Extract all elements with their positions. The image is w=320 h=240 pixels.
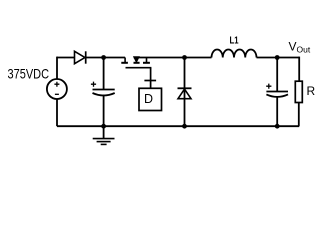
node: input cap bottom junction bbox=[101, 124, 106, 129]
diode D2 freewheeling (cathode up) bbox=[178, 88, 192, 98]
ground bbox=[93, 126, 115, 144]
svg-text:VOut: VOut bbox=[289, 40, 311, 55]
transistor Q1 MOSFET bbox=[121, 57, 151, 68]
inductor L1 bbox=[212, 50, 257, 58]
wire top rail left segment bbox=[57, 57, 75, 59]
svg-text:375VDC: 375VDC bbox=[8, 65, 50, 81]
node: switch node junction top of D2 bbox=[182, 55, 187, 60]
wire D2 cathode tap bbox=[184, 58, 186, 127]
wire output cap to bottom rail bbox=[276, 97, 278, 127]
driver block D bbox=[139, 88, 162, 110]
wire top rail from MOSFET to output corner bbox=[134, 57, 300, 59]
capacitor C1 input (polarized) bbox=[91, 82, 115, 96]
node: D2 bottom junction bbox=[182, 124, 187, 129]
diode D1 series (anode left, cathode right) bbox=[75, 51, 86, 63]
wire output cap tap bbox=[276, 58, 278, 92]
node: output cap bottom junction bbox=[275, 124, 280, 129]
wire input cap to bottom rail bbox=[103, 95, 105, 127]
wire right branch top bbox=[298, 57, 300, 82]
svg-text:D: D bbox=[144, 92, 153, 106]
wire top rail from D1 to MOSFET drain bbox=[86, 57, 125, 59]
wire resistor to bottom rail bbox=[298, 103, 300, 127]
wire input cap tap bbox=[103, 58, 105, 90]
wire bottom rail bbox=[57, 125, 299, 127]
wire left branch down to source bbox=[56, 57, 58, 79]
node: input cap top junction bbox=[101, 55, 106, 60]
resistor R load bbox=[295, 81, 302, 102]
gate terminal tick bbox=[144, 80, 156, 82]
voltage source V1 375VDC bbox=[47, 79, 67, 99]
capacitor C2 output (polarized) bbox=[266, 84, 288, 97]
svg-text:L1: L1 bbox=[230, 35, 239, 47]
svg-text:R: R bbox=[307, 84, 316, 98]
wire gate to driver bbox=[150, 68, 152, 89]
node: output cap top junction bbox=[275, 55, 280, 60]
wire source bottom to bottom rail bbox=[56, 99, 58, 126]
